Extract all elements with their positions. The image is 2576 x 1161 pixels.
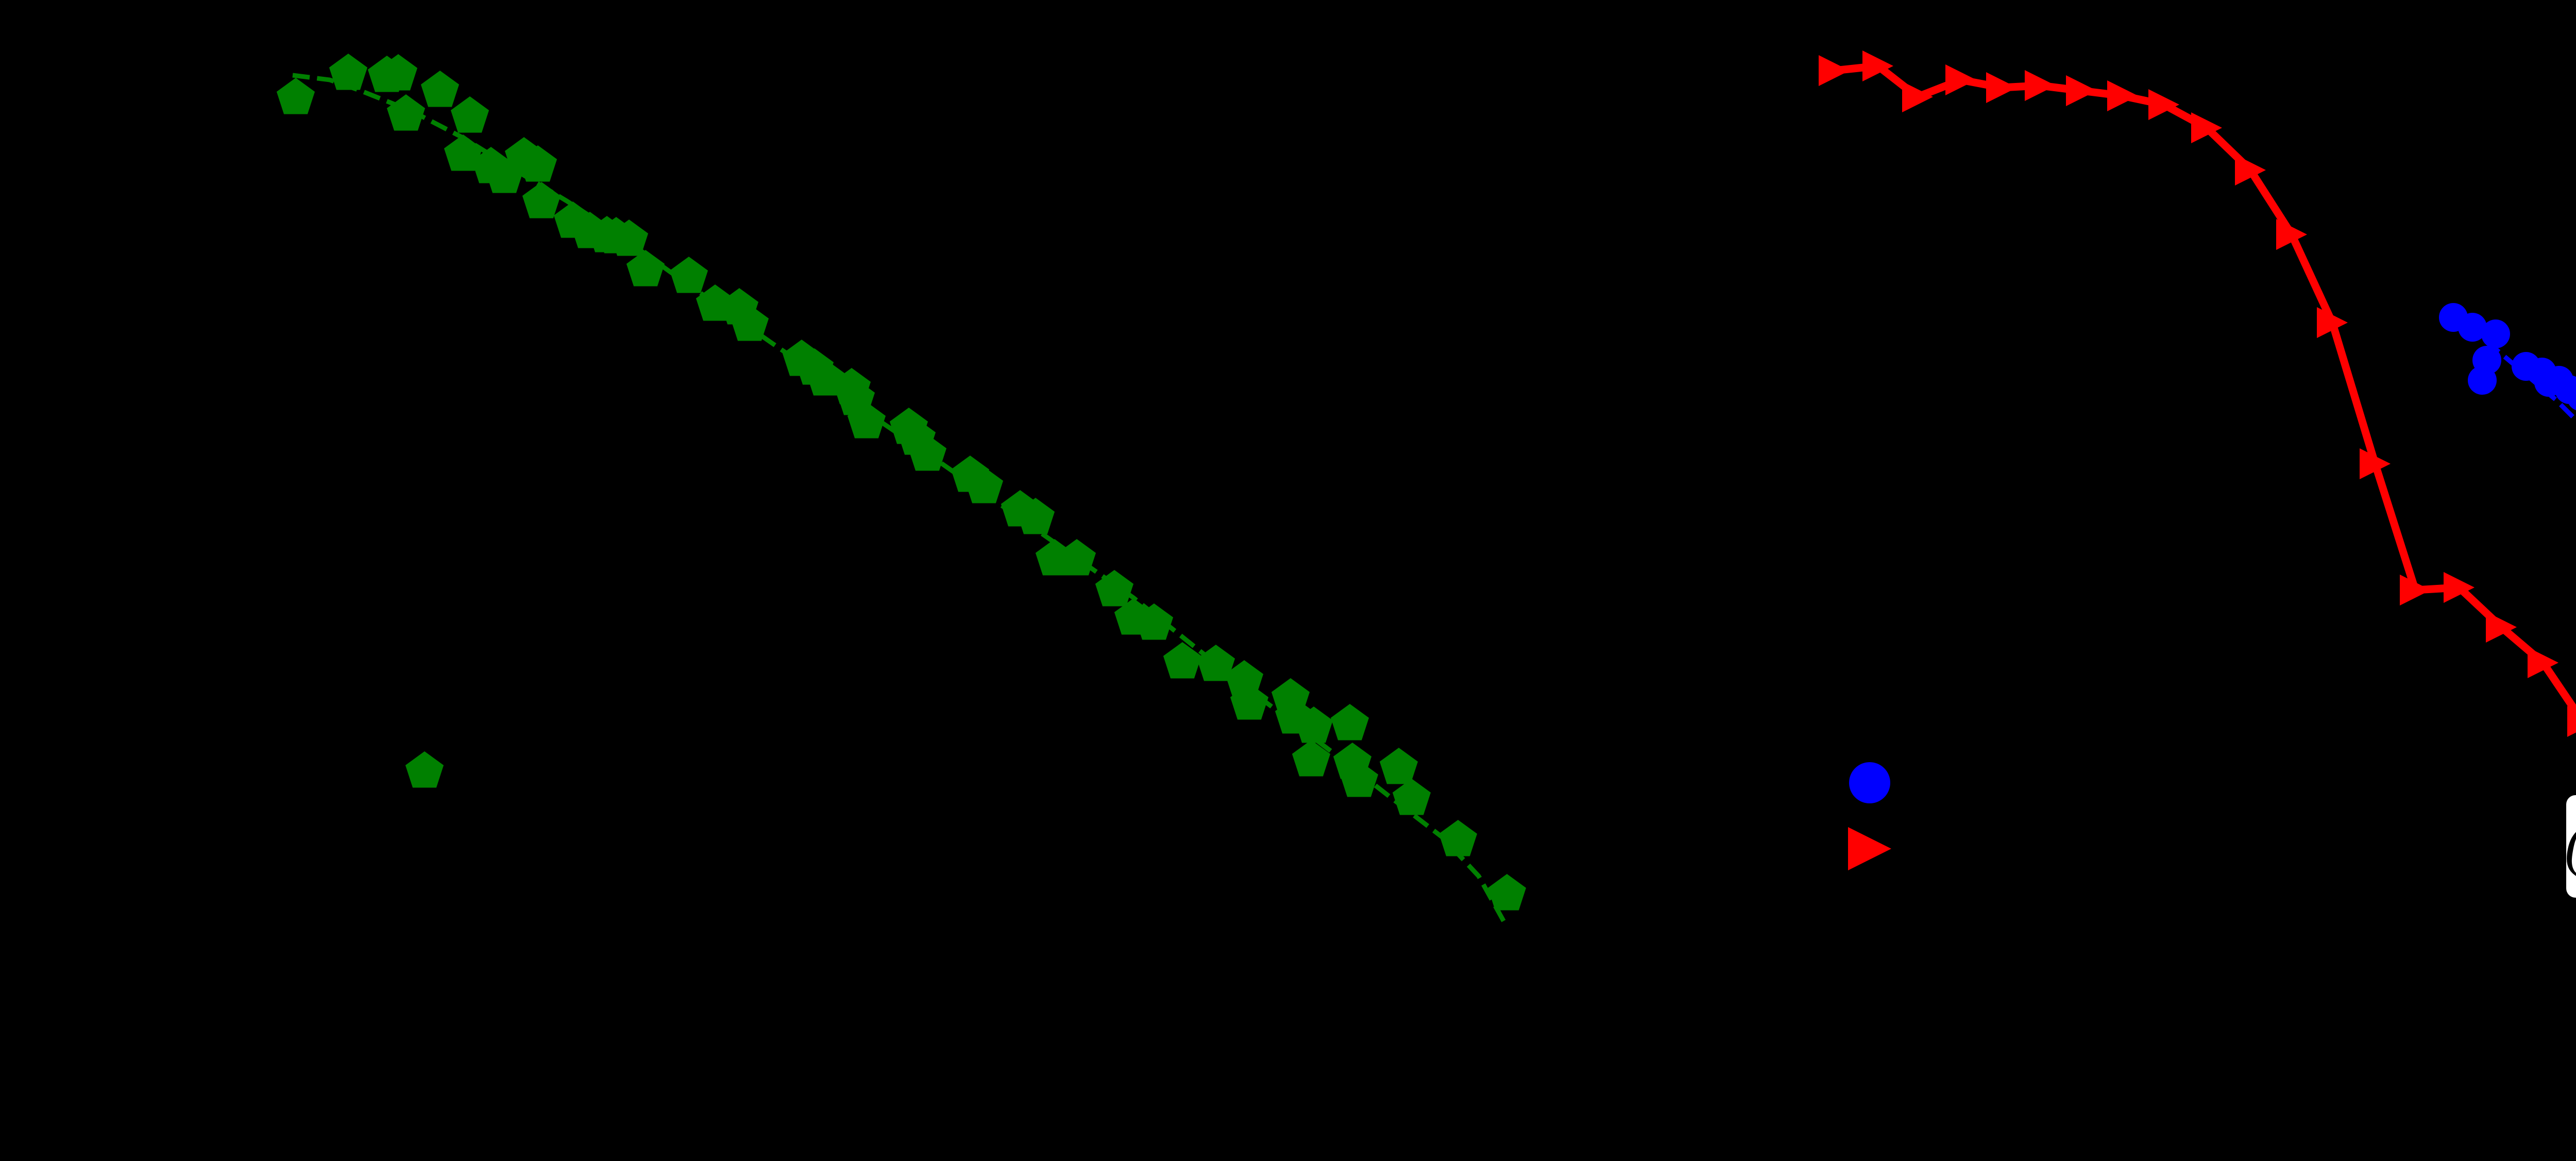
svg-text:(z, t): (z, t) [2565, 814, 2576, 878]
